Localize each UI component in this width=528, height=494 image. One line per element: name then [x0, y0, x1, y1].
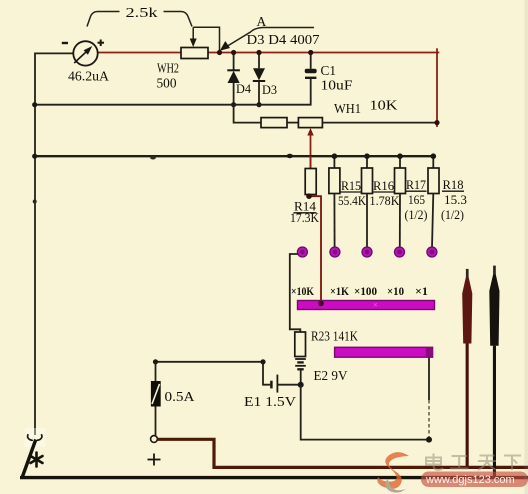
svg-text:A: A: [257, 14, 267, 29]
capacitor C1 10uF: [305, 53, 353, 93]
watermark banner www.dgjs123.com: [421, 472, 528, 488]
node (bus small mark): [150, 156, 156, 160]
svg-text:×100: ×100: [354, 284, 377, 298]
watermark char 电: [426, 454, 443, 470]
wire (meter left lead and left vertical rail): [35, 53, 74, 435]
diode D3: [253, 53, 277, 105]
node (R17 top): [397, 153, 403, 159]
svg-text:10uF: 10uF: [321, 77, 354, 92]
svg-text:×10: ×10: [387, 284, 404, 298]
node (WH2 wiper junction): [217, 50, 222, 55]
watermark char 天: [478, 456, 496, 471]
node (left rail small junction mark): [33, 200, 37, 204]
label A with arrow callout: [220, 14, 314, 51]
node (R14 bottom): [306, 193, 312, 199]
svg-text:×10K: ×10K: [291, 284, 315, 298]
label 2.5k with callout braces: [87, 5, 192, 27]
svg-text:R16: R16: [373, 178, 394, 193]
wire (red vertical right side down to WH1 row): [436, 48, 438, 127]
node (C1 top): [308, 50, 313, 55]
fuse 0.5A: [151, 362, 195, 436]
node (R15 top): [332, 153, 338, 159]
label range markings: [291, 284, 428, 298]
svg-text:E1 1.5V: E1 1.5V: [244, 395, 296, 410]
switch wiper bar 2: [335, 347, 433, 357]
wire (E2 negative loop: down, right, up to wiper bar 2): [301, 357, 429, 439]
node (E1/E2 junction): [298, 382, 304, 388]
svg-text:2.5k: 2.5k: [126, 5, 158, 20]
resistor R15 55.4K: [329, 156, 367, 247]
switch wiper bar 1: [298, 300, 435, 310]
node (WH1 row right end): [434, 120, 439, 125]
meter M1 46.2uA: [62, 40, 110, 85]
resistor R18 15.3 (1/2): [428, 156, 467, 247]
svg-text:10K: 10K: [370, 99, 398, 114]
svg-text:R18: R18: [443, 177, 464, 192]
svg-text:(1/2): (1/2): [405, 207, 428, 222]
svg-text:www.dgjs123.com: www.dgjs123.com: [425, 474, 515, 486]
node (R18 top): [431, 153, 437, 159]
probe red (positive test lead): [462, 269, 472, 466]
watermark 电工天下 logo and banner: [377, 452, 528, 493]
wire (top red rail from meter + to right side): [98, 52, 440, 54]
svg-text:WH2: WH2: [157, 61, 179, 76]
svg-text:0.5A: 0.5A: [165, 389, 195, 404]
wire (second horizontal rail y=104.7, ends up into C1 bottom): [35, 78, 311, 105]
svg-text:R15: R15: [341, 178, 361, 193]
resistor R14 17.3K: [290, 156, 320, 225]
node (R16 top): [364, 153, 370, 159]
watermark logo swirl: [377, 452, 409, 493]
wire (drop from diode rail down to WH1 row): [234, 105, 261, 123]
svg-text:1.78K: 1.78K: [370, 193, 401, 208]
svg-text:17.3K: 17.3K: [290, 210, 320, 225]
resistor R23 141K: [295, 329, 358, 357]
node (fuse top junction): [153, 359, 158, 364]
battery E1 1.5V with feed wire: [156, 362, 301, 410]
svg-text:D3: D3: [262, 82, 277, 97]
svg-text:R17: R17: [406, 177, 426, 192]
node ×10 contact: [395, 247, 405, 257]
wire (between resistor and WH1): [287, 122, 298, 124]
svg-text:15.3: 15.3: [444, 192, 467, 207]
node (D3 top): [256, 50, 261, 55]
switch (range selector blade with asterisk): [23, 428, 46, 477]
terminal + (positive test jack): [148, 436, 161, 466]
node ×1 contact: [427, 247, 437, 257]
node ×10K contact: [297, 247, 307, 257]
node (loop corner): [426, 437, 432, 443]
svg-text:R23 141K: R23 141K: [311, 329, 358, 344]
resistor (series with WH1): [261, 118, 287, 128]
svg-text:×1K: ×1K: [330, 284, 350, 298]
svg-text:(1/2): (1/2): [441, 207, 464, 222]
svg-text:165: 165: [408, 192, 425, 207]
svg-text:55.4K: 55.4K: [338, 193, 367, 208]
node (bus stray junction): [286, 154, 293, 158]
svg-text:WH1: WH1: [334, 102, 361, 117]
svg-text:D4: D4: [236, 81, 251, 96]
node (D4 bottom): [231, 102, 236, 107]
resistor R17 165 (1/2): [395, 156, 428, 247]
node (R14 feed on bar): [318, 301, 324, 307]
wire (×10K contact down to R23): [290, 254, 301, 332]
svg-text:46.2uA: 46.2uA: [68, 69, 110, 84]
potentiometer WH1 10K: [298, 99, 397, 169]
svg-text:×1: ×1: [415, 284, 428, 298]
wire (thick maroon from + terminal to right edge): [157, 439, 528, 467]
svg-text:E2 9V: E2 9V: [314, 369, 348, 384]
node (bus left end): [32, 154, 37, 159]
svg-text:×: ×: [373, 300, 378, 310]
node ×100 contact: [362, 247, 372, 257]
potentiometer WH2 500: [157, 27, 220, 90]
wire (WH1 right to red vertical): [322, 122, 437, 124]
watermark char 工: [450, 456, 469, 469]
wire (bottom black bus): [20, 476, 528, 479]
node (E1 left junction): [260, 359, 265, 364]
node (rail joins left rail): [32, 102, 37, 107]
node (D3 bottom): [256, 102, 261, 107]
node ×1K contact: [330, 247, 340, 257]
probe black (negative test lead): [489, 266, 499, 476]
node (D4 top): [231, 50, 236, 55]
watermark char 下: [504, 456, 521, 471]
svg-text:D3 D4 4007: D3 D4 4007: [247, 32, 320, 47]
wire (R14 bottom jog to wiper bar, red): [311, 195, 322, 302]
resistor R16 1.78K: [362, 156, 401, 247]
svg-text:500: 500: [157, 76, 177, 91]
diode D4: [227, 53, 251, 105]
wire (bus rail y=156.2): [35, 155, 434, 157]
battery E2 9V: [295, 359, 347, 385]
svg-text:C1: C1: [321, 63, 337, 78]
